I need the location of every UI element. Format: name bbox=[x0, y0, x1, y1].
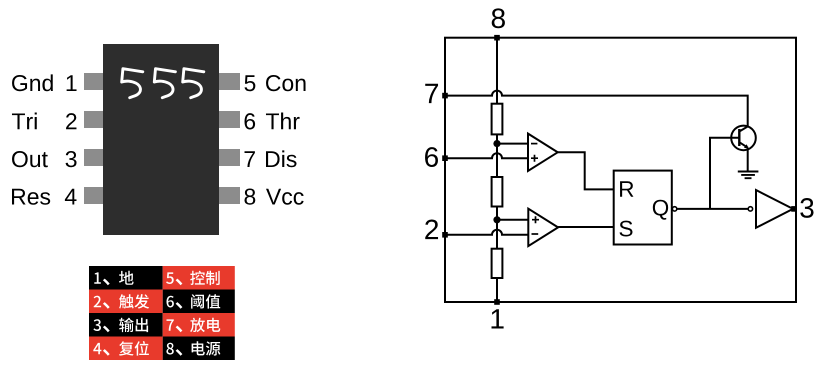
transistor Q1 emitter arrowhead bbox=[744, 144, 749, 148]
IC pin 5 stub bbox=[219, 187, 240, 204]
inverter U4 input bubble bbox=[748, 207, 752, 211]
transistor Q1 collector diagonal bbox=[739, 126, 748, 131]
terminal pin 2 bbox=[442, 232, 448, 238]
latch R input label bbox=[620, 181, 633, 197]
pin name Res bbox=[12, 189, 50, 205]
transistor Q1 base bar bbox=[738, 129, 740, 146]
wire inverter output to pin 3 bbox=[791, 208, 796, 210]
wire R3 to bottom edge bbox=[496, 278, 498, 302]
terminal pin 3 bbox=[791, 206, 797, 212]
pin number 7 bbox=[245, 151, 255, 167]
U1 minus sign bbox=[531, 143, 537, 145]
pin number 8 bbox=[245, 188, 256, 204]
IC pin 1 stub bbox=[84, 73, 104, 90]
resistor R1 bbox=[492, 104, 503, 135]
pin function table bbox=[89, 266, 235, 360]
pin number 3 bbox=[66, 151, 77, 167]
pin name Thr bbox=[266, 113, 300, 130]
ground symbol bbox=[738, 172, 759, 179]
pin number 1 bbox=[67, 75, 77, 91]
pin name Out bbox=[12, 151, 48, 167]
pin name Con bbox=[266, 75, 306, 91]
pin number 5 bbox=[244, 75, 255, 91]
wire R2 to R3 segment bbox=[496, 207, 498, 250]
pin name Dis bbox=[266, 150, 297, 167]
pin 7 label bbox=[425, 84, 438, 103]
latch inverted output bubble bbox=[672, 207, 676, 211]
555 IC package body bbox=[103, 44, 219, 236]
U1 plus sign bbox=[531, 155, 538, 162]
table cell pin 3 output bbox=[89, 313, 163, 337]
wire Q1 emitter to ground bbox=[747, 148, 749, 171]
wire pin 2 to comparator U2 inverting input with hop bbox=[445, 230, 528, 235]
pin 1 label bbox=[492, 309, 504, 328]
pin name Tri bbox=[12, 113, 37, 130]
latch S input label bbox=[619, 221, 632, 237]
terminal pin 8 bbox=[494, 35, 500, 41]
wire transistor Q1 base tap from output line bbox=[710, 138, 739, 209]
IC pin 4 stub bbox=[84, 187, 104, 204]
pin number 6 bbox=[245, 113, 256, 129]
transistor Q1 body circle bbox=[731, 126, 756, 151]
wire pin 7 to transistor collector with hop over divider bbox=[445, 91, 748, 127]
wire latch output to inverter U4 input bbox=[677, 208, 748, 210]
pin name Gnd bbox=[12, 74, 53, 91]
pin number 4 bbox=[65, 189, 77, 205]
op-amp U1 threshold comparator bbox=[528, 134, 558, 171]
node B junction dot - R2/R3 divider tap bbox=[493, 216, 500, 223]
latch Q output label bbox=[653, 200, 668, 220]
pin 3 label bbox=[800, 198, 813, 218]
pin 2 label bbox=[425, 220, 438, 240]
IC pin 2 stub bbox=[84, 111, 104, 128]
wire divider tap A to comparator U1 inverting input bbox=[497, 143, 528, 145]
node A junction dot - R1/R2 divider tap bbox=[493, 140, 500, 147]
555 logo on IC bbox=[120, 66, 208, 100]
terminal pin 1 bbox=[494, 299, 500, 305]
wire U1 output to latch R input bbox=[558, 152, 614, 189]
IC pin 3 stub bbox=[84, 149, 104, 166]
table cell pin 6 threshold bbox=[163, 289, 235, 313]
pin number 2 bbox=[66, 113, 76, 129]
flip-flop latch U3 box bbox=[614, 171, 672, 245]
pin 6 label bbox=[425, 147, 438, 167]
table cell pin 2 trigger bbox=[89, 289, 163, 313]
pin 8 label bbox=[492, 8, 505, 28]
table cell pin 4 reset bbox=[89, 336, 163, 360]
wire divider top segment from pin 8 to resistor R1 bbox=[496, 38, 498, 105]
IC pin 7 stub bbox=[219, 111, 240, 128]
terminal pin 7 bbox=[442, 93, 448, 99]
wire R1 to R2 segment bbox=[496, 134, 498, 178]
resistor R2 bbox=[492, 177, 503, 207]
wire pin 6 to comparator U1 non-inverting input with hop bbox=[445, 153, 528, 158]
transistor Q1 emitter diagonal bbox=[739, 142, 748, 148]
table cell pin 8 power bbox=[163, 336, 235, 360]
wire divider tap B to comparator U2 non-inverting input bbox=[497, 219, 528, 221]
U2 plus sign bbox=[532, 216, 539, 223]
table cell pin 1 ground bbox=[89, 266, 163, 290]
terminal pin 6 bbox=[442, 155, 448, 161]
IC pin 6 stub bbox=[219, 149, 240, 166]
op-amp U2 trigger comparator bbox=[528, 209, 558, 246]
IC pin 8 stub bbox=[219, 73, 240, 90]
outer boundary box of 555 internal diagram bbox=[445, 38, 796, 302]
table cell pin 5 control bbox=[163, 266, 235, 290]
wire U2 output to latch S input bbox=[558, 226, 614, 228]
inverter U4 triangle bbox=[756, 190, 793, 228]
table cell pin 7 discharge bbox=[163, 313, 235, 337]
pin name Vcc bbox=[266, 189, 304, 205]
resistor R3 bbox=[492, 249, 503, 278]
U2 minus sign bbox=[532, 233, 539, 235]
